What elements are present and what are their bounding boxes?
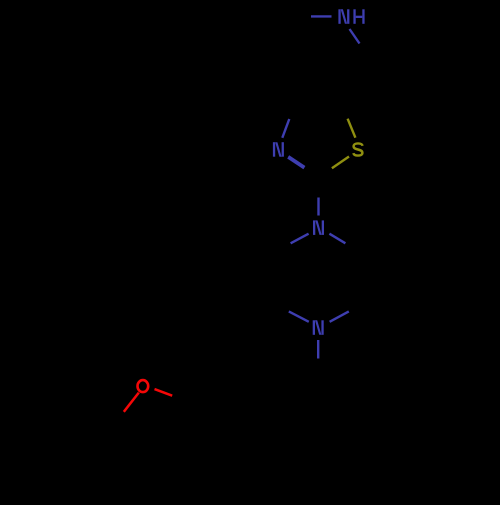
bond S1-C2 (olive half) [332, 157, 349, 169]
bond N3-C3a (blue half) [282, 119, 289, 138]
atom label S1 (thiazole ring S) [353, 143, 362, 155]
double bond N3=C2 (blue half, two merged lines) [289, 156, 305, 167]
bond C4-N5H (blue half) [311, 15, 332, 17]
bond N1p-C up-left (blue half) [289, 311, 309, 321]
bond N1p-C up-right (blue half) [330, 311, 349, 321]
bond O1-C5thf down-left (red half) [124, 393, 139, 412]
bond N5H-C6 (blue half) [350, 29, 360, 44]
bond N4p-C down-right (blue half) [329, 234, 345, 244]
bond N4p-C down-left (blue half) [291, 234, 309, 244]
atom label N3 (thiazole ring N) [273, 142, 284, 157]
bond S1-C7a (olive half) [348, 119, 356, 138]
bond N1p-CH2 vertical (blue half) [317, 340, 319, 359]
atom label NH (tetrahydropyridine ring NH) [338, 9, 364, 23]
bond C2-N4p vertical (blue half) [317, 198, 319, 216]
atom label N1p (piperazine bottom N) [313, 320, 324, 335]
atom label N4p (piperazine top N) [313, 220, 324, 235]
atom label O1 (tetrahydrofuran O) [138, 380, 149, 392]
bond O1-C2thf right (red half) [155, 389, 173, 396]
